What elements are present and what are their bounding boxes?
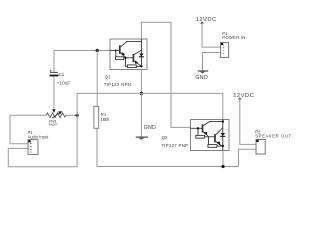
rheostat diagonal arrow	[52, 113, 59, 118]
node base junction dot	[96, 49, 99, 52]
connector P1 POWER IN	[221, 31, 246, 57]
wire middle ground stub	[140, 93, 142, 136]
svg-text:POWER IN: POWER IN	[222, 35, 245, 40]
connector P2 SPEAKER OUT	[255, 129, 291, 154]
node output rail junction dot	[221, 165, 224, 168]
wire pot right up to emitter rail	[76, 93, 78, 115]
resistor R1	[94, 106, 110, 128]
svg-text:Q1: Q1	[105, 74, 111, 79]
transistor Q1 TIP122 box	[110, 39, 147, 70]
Q1 internals	[110, 39, 141, 68]
Q2 T2 emitter	[216, 142, 223, 147]
svg-text:12VDC: 12VDC	[196, 17, 217, 23]
Q1 T1 collector	[121, 41, 142, 46]
wire Q1 collector loop to Q2 base	[141, 22, 190, 127]
Q2 T1 collector	[203, 122, 223, 126]
capacitor C1	[50, 70, 71, 86]
svg-text:Q2: Q2	[162, 135, 168, 140]
svg-text:C1: C1	[59, 72, 65, 77]
Q2 base lead	[191, 127, 203, 129]
wire pot right to input ground rail	[8, 115, 77, 167]
Q1 T1 emitter arrow	[122, 52, 126, 55]
svg-text:Audio Input: Audio Input	[28, 134, 50, 139]
Q1 right vertical	[140, 39, 142, 66]
Q2 T2 collector	[216, 128, 223, 135]
svg-text:GND: GND	[195, 75, 208, 81]
transistor Q2 TIP127 box	[191, 120, 230, 151]
Q2 T1 emitter	[203, 132, 209, 137]
svg-text:+10uF: +10uF	[57, 80, 71, 85]
Q2 internal resistor Rb	[208, 137, 210, 145]
node pot-right junction dot	[76, 114, 79, 117]
svg-text:180k: 180k	[100, 117, 110, 122]
svg-text:POT: POT	[49, 122, 58, 127]
Q2 body diode	[221, 133, 226, 136]
Q1 body diode	[139, 54, 144, 57]
Q2 internals	[191, 120, 223, 151]
ground mid	[136, 125, 156, 140]
node emitter rail junction dot	[140, 92, 143, 95]
wire pot right lead	[66, 114, 77, 116]
Q2 T1 base bar	[202, 124, 204, 132]
Q2 T2 emitter arrow (PNP)	[216, 141, 220, 145]
svg-text:SPEAKER OUT: SPEAKER OUT	[255, 133, 291, 138]
Q2 internal resistor Ra	[197, 128, 199, 135]
Q1 T2 emitter arrow	[135, 60, 139, 63]
svg-text:TIP122 NPN: TIP122 NPN	[104, 82, 131, 87]
zigzag	[46, 113, 66, 118]
wiper arrow	[52, 109, 56, 113]
Q1 T1 base bar	[119, 45, 121, 54]
wire R1 top branch	[96, 51, 98, 107]
svg-text:12VDC: 12VDC	[233, 93, 254, 99]
svg-text:GND: GND	[144, 125, 157, 131]
Q1 T2 emitter	[134, 61, 141, 66]
Q2 node line	[209, 136, 215, 138]
Q1 T1 emitter	[121, 53, 126, 58]
Q1 internal resistor Rb	[126, 58, 128, 67]
Q2 T1 emitter arrow (PNP, points to bar)	[203, 132, 207, 136]
Q1 node line	[126, 57, 134, 59]
wire emitter rail to Q2 top	[77, 93, 223, 119]
Q2 right vertical	[222, 120, 224, 151]
connector P1 Audio Input	[28, 130, 50, 154]
Q1 internal junction dots	[124, 57, 126, 59]
Q2 T2 base bar	[214, 134, 216, 142]
potentiometer RV1	[46, 109, 66, 127]
wire Q2 emitter to output rail	[222, 151, 224, 167]
power flag 12VDC right	[233, 93, 256, 145]
wire R1 bottom to ground rail	[97, 128, 238, 166]
Q1 T2 collector	[134, 50, 141, 55]
svg-text:TIP127 PNP: TIP127 PNP	[161, 143, 188, 148]
Q1 internal resistor Ra	[115, 50, 117, 56]
Q2 internal junction dots	[197, 127, 199, 129]
power flag 12VDC top	[196, 17, 221, 47]
wire Q1 emitter down	[140, 70, 142, 94]
wire pot left lead	[10, 115, 46, 143]
wire top base line from C1 to Q1 base	[54, 51, 110, 73]
Q1 T2 base bar	[132, 54, 134, 62]
wire power pin2 to ground	[203, 53, 221, 71]
ground power	[195, 71, 208, 81]
wire speaker pin2 wire	[238, 148, 256, 150]
Q1 base lead	[110, 49, 119, 51]
wire C1 bottom lead	[53, 76, 55, 109]
